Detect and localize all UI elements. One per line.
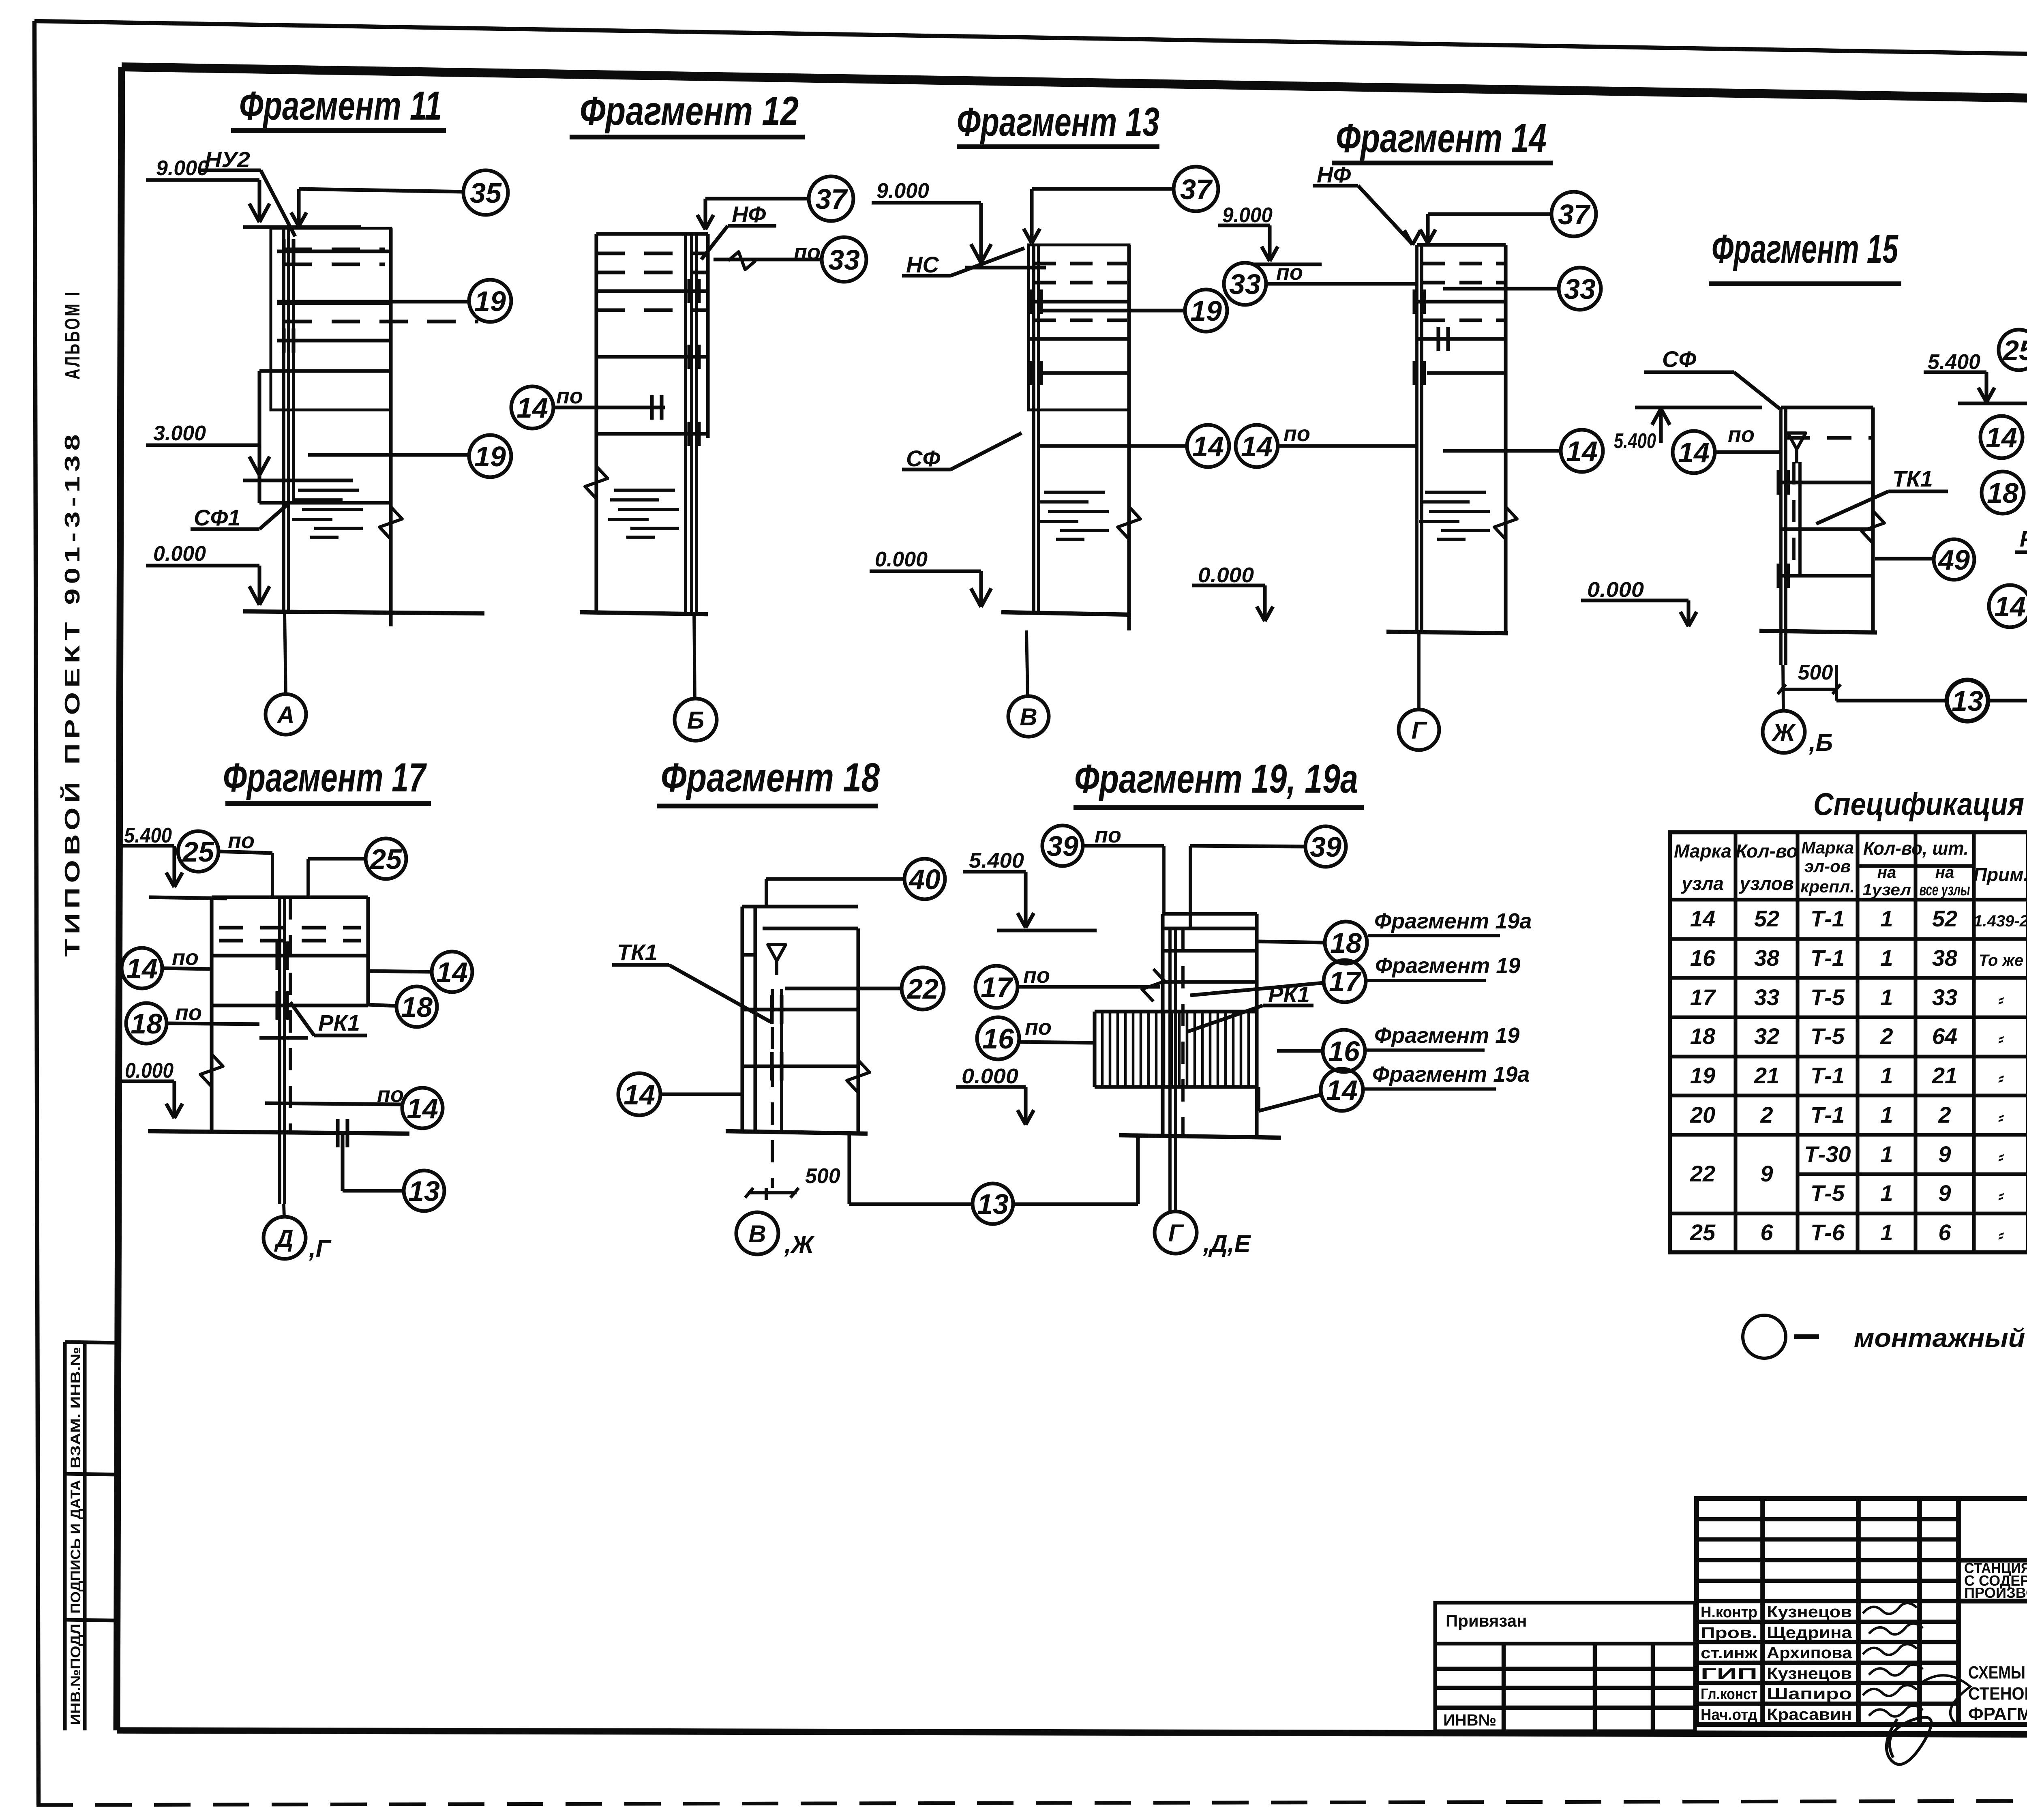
svg-text:Фрагмент 11: Фрагмент 11 xyxy=(239,83,442,129)
svg-text:ПРОИЗВОДИТЕЛЬНОСТЬЮ 40 ТЫС. М³: ПРОИЗВОДИТЕЛЬНОСТЬЮ 40 ТЫС. М³/СУТКИ xyxy=(1964,1584,2027,1601)
svg-text:25: 25 xyxy=(1690,1220,1716,1245)
svg-text:49: 49 xyxy=(1937,544,1970,576)
svg-text:0.000: 0.000 xyxy=(962,1065,1018,1088)
svg-text:500: 500 xyxy=(805,1164,840,1188)
svg-text:Фрагмент 13: Фрагмент 13 xyxy=(957,99,1159,145)
svg-text:21: 21 xyxy=(1932,1063,1957,1088)
svg-text:⸗: ⸗ xyxy=(1998,1069,2004,1087)
svg-text:1: 1 xyxy=(1880,1220,1893,1245)
svg-text:0.000: 0.000 xyxy=(1587,578,1644,602)
svg-text:22: 22 xyxy=(1690,1161,1715,1186)
svg-text:13: 13 xyxy=(1952,685,1983,717)
svg-text:по: по xyxy=(175,1001,202,1025)
svg-text:узла: узла xyxy=(1681,873,1724,894)
svg-text:3.000: 3.000 xyxy=(153,422,206,445)
svg-text:ИНВ.№ПОДЛ: ИНВ.№ПОДЛ xyxy=(68,1624,84,1725)
svg-text:,Ж: ,Ж xyxy=(784,1231,815,1258)
svg-text:5.400: 5.400 xyxy=(969,849,1024,872)
svg-text:13: 13 xyxy=(977,1188,1009,1220)
svg-text:Т-5: Т-5 xyxy=(1811,1023,1845,1049)
svg-text:18: 18 xyxy=(401,991,433,1023)
svg-text:СТЕНОВЫХ ПАНЕЛЕЙ: СТЕНОВЫХ ПАНЕЛЕЙ xyxy=(1968,1683,2027,1704)
svg-text:64: 64 xyxy=(1932,1023,1957,1049)
svg-text:19: 19 xyxy=(474,441,506,472)
svg-text:37: 37 xyxy=(1180,174,1213,205)
svg-text:5.400: 5.400 xyxy=(124,824,172,847)
svg-text:33: 33 xyxy=(1754,984,1779,1010)
svg-text:Спецификация: Спецификация xyxy=(1813,786,2024,822)
svg-text:6: 6 xyxy=(1938,1220,1951,1245)
svg-text:0.000: 0.000 xyxy=(153,542,206,566)
svg-text:Фрагмент 19, 19а: Фрагмент 19, 19а xyxy=(1074,756,1358,802)
svg-text:14: 14 xyxy=(407,1093,438,1124)
svg-text:все узлы: все узлы xyxy=(1920,881,1970,899)
svg-text:25: 25 xyxy=(369,843,402,875)
svg-text:ИНВ№: ИНВ№ xyxy=(1443,1711,1496,1729)
svg-text:Привязан: Привязан xyxy=(1446,1611,1527,1630)
svg-text:39: 39 xyxy=(1047,830,1078,862)
svg-text:Т-1: Т-1 xyxy=(1811,906,1845,931)
svg-text:33: 33 xyxy=(1229,268,1261,300)
svg-text:узлов: узлов xyxy=(1739,873,1794,894)
svg-text:⸗: ⸗ xyxy=(1998,1108,2004,1126)
svg-text:35: 35 xyxy=(470,177,502,209)
svg-text:18: 18 xyxy=(1690,1023,1716,1049)
svg-text:13: 13 xyxy=(408,1175,440,1207)
svg-text:14: 14 xyxy=(126,953,158,984)
svg-text:14: 14 xyxy=(1678,437,1710,468)
svg-text:Прим.: Прим. xyxy=(1973,864,2027,885)
svg-text:Т-5: Т-5 xyxy=(1811,984,1845,1010)
svg-text:19: 19 xyxy=(1690,1063,1715,1088)
svg-text:по: по xyxy=(1025,1015,1052,1040)
svg-text:1: 1 xyxy=(1880,1063,1893,1088)
svg-text:1: 1 xyxy=(1880,945,1893,971)
svg-text:Архипова: Архипова xyxy=(1767,1644,1852,1662)
svg-text:9: 9 xyxy=(1938,1180,1951,1206)
svg-text:⸗: ⸗ xyxy=(1998,1148,2004,1166)
svg-text:Т-1: Т-1 xyxy=(1811,945,1845,971)
svg-text:2: 2 xyxy=(1938,1102,1951,1128)
svg-text:⸗: ⸗ xyxy=(1998,1226,2004,1244)
svg-text:В: В xyxy=(1020,703,1037,731)
svg-text:НУ2: НУ2 xyxy=(205,148,250,172)
svg-text:25: 25 xyxy=(2002,334,2027,366)
svg-text:ТК1: ТК1 xyxy=(1892,466,1933,491)
svg-text:Марка: Марка xyxy=(1801,838,1854,857)
svg-text:Фрагмент 18: Фрагмент 18 xyxy=(661,755,880,800)
svg-text:1.439-2: 1.439-2 xyxy=(1973,912,2027,930)
svg-text:РК1: РК1 xyxy=(2020,526,2027,551)
svg-text:по: по xyxy=(228,829,255,853)
svg-text:РК1: РК1 xyxy=(1268,982,1310,1007)
svg-text:32: 32 xyxy=(1754,1023,1779,1049)
svg-text:37: 37 xyxy=(815,183,848,215)
svg-text:Кузнецов: Кузнецов xyxy=(1767,1665,1852,1683)
svg-text:по: по xyxy=(1023,963,1050,988)
svg-text:37: 37 xyxy=(1558,199,1591,230)
svg-text:16: 16 xyxy=(1690,945,1716,971)
svg-text:52: 52 xyxy=(1932,906,1957,931)
svg-text:38: 38 xyxy=(1932,945,1958,971)
svg-text:Ж: Ж xyxy=(1771,719,1796,746)
svg-text:Фрагмент 14: Фрагмент 14 xyxy=(1336,116,1547,161)
svg-text:ПОДПИСЬ И ДАТА: ПОДПИСЬ И ДАТА xyxy=(68,1480,84,1614)
svg-text:ТИПОВОЙ ПРОЕКТ 901-3-138: ТИПОВОЙ ПРОЕКТ 901-3-138 xyxy=(60,430,84,957)
svg-text:16: 16 xyxy=(1328,1035,1360,1067)
svg-text:Фрагмент 15: Фрагмент 15 xyxy=(1712,226,1898,272)
svg-text:ВЗАМ. ИНВ.№: ВЗАМ. ИНВ.№ xyxy=(68,1347,84,1468)
svg-text:⸗: ⸗ xyxy=(1998,1187,2004,1205)
svg-text:9: 9 xyxy=(1938,1141,1951,1167)
svg-text:крепл.: крепл. xyxy=(1800,877,1855,896)
svg-text:40: 40 xyxy=(908,864,941,895)
svg-text:Д: Д xyxy=(274,1225,293,1252)
svg-text:НС: НС xyxy=(906,252,939,277)
svg-text:18: 18 xyxy=(1330,927,1362,959)
svg-text:⸗: ⸗ xyxy=(1998,1030,2004,1048)
svg-text:Г: Г xyxy=(1412,717,1428,744)
svg-text:Кузнецов: Кузнецов xyxy=(1767,1603,1852,1621)
svg-text:17: 17 xyxy=(1329,966,1362,997)
svg-text:по: по xyxy=(1095,823,1121,847)
svg-text:14: 14 xyxy=(1986,422,2017,453)
svg-text:Пров.: Пров. xyxy=(1701,1625,1757,1642)
svg-text:Фрагмент 19а: Фрагмент 19а xyxy=(1374,909,1532,933)
svg-text:9.000: 9.000 xyxy=(1222,204,1273,227)
svg-text:СФ1: СФ1 xyxy=(194,505,240,530)
svg-text:ТК1: ТК1 xyxy=(617,939,658,965)
svg-text:Фрагмент 19а: Фрагмент 19а xyxy=(1372,1062,1530,1087)
svg-text:1: 1 xyxy=(1880,984,1893,1010)
svg-text:Т-30: Т-30 xyxy=(1804,1141,1851,1167)
svg-text:Т-1: Т-1 xyxy=(1811,1102,1845,1128)
svg-text:14: 14 xyxy=(1690,906,1715,931)
svg-text:14: 14 xyxy=(624,1079,655,1110)
svg-text:5.400: 5.400 xyxy=(1928,350,1980,374)
svg-text:33: 33 xyxy=(1564,273,1596,305)
svg-text:Гл.конст: Гл.конст xyxy=(1701,1686,1757,1703)
svg-text:ФРАГМЕНТЫ 11÷19: ФРАГМЕНТЫ 11÷19 xyxy=(1968,1704,2027,1724)
svg-text:,Г: ,Г xyxy=(309,1235,332,1262)
svg-text:52: 52 xyxy=(1754,906,1779,931)
svg-text:38: 38 xyxy=(1754,945,1780,971)
svg-text:9: 9 xyxy=(1760,1161,1773,1186)
svg-text:14: 14 xyxy=(1566,435,1598,467)
svg-text:22: 22 xyxy=(906,973,939,1005)
svg-text:2: 2 xyxy=(1880,1023,1893,1049)
svg-text:Т-6: Т-6 xyxy=(1811,1220,1845,1245)
svg-text:эл-ов: эл-ов xyxy=(1804,857,1851,876)
svg-text:9.000: 9.000 xyxy=(876,179,929,203)
svg-text:14: 14 xyxy=(1326,1074,1358,1106)
svg-text:17: 17 xyxy=(981,971,1013,1003)
svg-text:Кол-во, шт.: Кол-во, шт. xyxy=(1863,838,1969,859)
svg-text:НФ: НФ xyxy=(732,202,766,227)
svg-text:19: 19 xyxy=(1190,295,1222,327)
svg-text:,Д,Е: ,Д,Е xyxy=(1203,1230,1251,1257)
svg-text:18: 18 xyxy=(131,1008,162,1040)
svg-text:СФ: СФ xyxy=(906,446,940,471)
svg-text:6: 6 xyxy=(1760,1220,1773,1245)
svg-text:Т-1: Т-1 xyxy=(1811,1063,1845,1088)
svg-text:Фрагмент 19: Фрагмент 19 xyxy=(1374,1023,1519,1048)
svg-text:1: 1 xyxy=(1880,1180,1893,1206)
svg-text:В: В xyxy=(748,1220,766,1248)
svg-text:9.000: 9.000 xyxy=(156,156,209,180)
svg-text:Шапиро: Шапиро xyxy=(1767,1685,1852,1703)
svg-text:То же: То же xyxy=(1979,952,2023,969)
svg-text:НФ: НФ xyxy=(1317,162,1351,187)
svg-text:СФ: СФ xyxy=(1662,346,1696,372)
svg-text:14: 14 xyxy=(1192,431,1224,462)
svg-text:на: на xyxy=(1877,864,1896,881)
svg-text:14: 14 xyxy=(516,392,548,424)
svg-text:25: 25 xyxy=(182,836,214,868)
svg-text:Г: Г xyxy=(1168,1220,1185,1247)
svg-text:17: 17 xyxy=(1690,984,1716,1010)
svg-text:Фрагмент 12: Фрагмент 12 xyxy=(580,88,799,134)
svg-text:по: по xyxy=(556,384,583,408)
svg-text:19: 19 xyxy=(474,285,506,317)
svg-text:ст.инж: ст.инж xyxy=(1701,1645,1758,1662)
svg-text:1узел: 1узел xyxy=(1862,881,1911,899)
svg-text:Кол-во: Кол-во xyxy=(1736,840,1798,862)
svg-text:Марка: Марка xyxy=(1674,840,1731,862)
svg-text:0.000: 0.000 xyxy=(1198,564,1254,587)
svg-text:СХЕМЫ РАСПОЛОЖЕНИЯ: СХЕМЫ РАСПОЛОЖЕНИЯ xyxy=(1968,1663,2027,1683)
svg-text:по: по xyxy=(1728,422,1755,447)
svg-text:Фрагмент 17: Фрагмент 17 xyxy=(223,755,427,800)
svg-text:А: А xyxy=(276,701,294,729)
svg-text:,Б: ,Б xyxy=(1808,729,1833,756)
svg-text:33: 33 xyxy=(828,244,860,276)
svg-text:1: 1 xyxy=(1880,1102,1893,1128)
svg-text:АЛЬБОМ I: АЛЬБОМ I xyxy=(61,290,84,379)
svg-text:монтажный узел по серии 2.432-: монтажный узел по серии 2.432-1, вып. 1 xyxy=(1854,1323,2027,1353)
svg-text:39: 39 xyxy=(1310,831,1341,863)
svg-text:Т-5: Т-5 xyxy=(1811,1180,1845,1206)
svg-text:5.400: 5.400 xyxy=(1614,429,1656,453)
svg-text:Фрагмент 19: Фрагмент 19 xyxy=(1375,954,1520,978)
svg-text:ГИП: ГИП xyxy=(1701,1666,1757,1683)
svg-text:14: 14 xyxy=(436,956,468,988)
svg-text:1: 1 xyxy=(1880,906,1893,931)
svg-text:по: по xyxy=(172,945,199,970)
svg-text:0.000: 0.000 xyxy=(875,548,928,571)
svg-text:1: 1 xyxy=(1880,1141,1893,1167)
svg-text:18: 18 xyxy=(1987,477,2018,509)
svg-text:20: 20 xyxy=(1690,1102,1715,1128)
svg-text:РК1: РК1 xyxy=(318,1010,360,1035)
svg-text:21: 21 xyxy=(1754,1063,1779,1088)
svg-text:Б: Б xyxy=(687,707,704,734)
svg-text:0.000: 0.000 xyxy=(125,1059,174,1083)
svg-text:Красавин: Красавин xyxy=(1767,1706,1852,1724)
svg-text:Щедрина: Щедрина xyxy=(1767,1624,1852,1642)
svg-text:14: 14 xyxy=(1241,431,1273,462)
svg-text:⸗: ⸗ xyxy=(1998,991,2004,1009)
svg-text:по: по xyxy=(1283,422,1310,446)
svg-text:500: 500 xyxy=(1798,661,1833,684)
svg-text:Нач.отд: Нач.отд xyxy=(1701,1706,1757,1724)
svg-text:на: на xyxy=(1935,864,1954,881)
svg-text:16: 16 xyxy=(982,1023,1014,1055)
svg-text:Н.контр: Н.контр xyxy=(1701,1604,1757,1621)
svg-text:2: 2 xyxy=(1760,1102,1773,1128)
svg-text:14: 14 xyxy=(1994,591,2026,622)
svg-text:33: 33 xyxy=(1932,984,1957,1010)
